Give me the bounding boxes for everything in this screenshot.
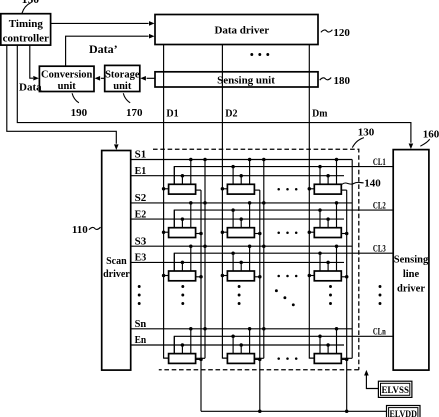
label S1 (135, 149, 147, 161)
wire S-line end vertical column m (351, 160, 353, 359)
ELVDD supply box (387, 406, 421, 417)
pixel 140 row 2 col m (309, 201, 346, 237)
svg-text:Sensing: Sensing (394, 254, 429, 265)
label E1 (135, 165, 147, 177)
sensing line CLn (174, 336, 393, 353)
svg-text:line: line (403, 269, 420, 280)
svg-text:Timing: Timing (9, 18, 44, 30)
wire ELVDD bus (201, 410, 387, 414)
svg-text:Storage: Storage (105, 70, 140, 81)
svg-text:ELVDD: ELVDD (389, 409, 417, 417)
svg-text:unit: unit (58, 81, 77, 92)
pixel 140 row 1 col m (309, 158, 346, 194)
label Data' (89, 42, 118, 56)
svg-text:120: 120 (333, 27, 350, 39)
vertical ellipsis x=182.8 (181, 285, 184, 305)
emission line E1 (131, 175, 344, 177)
vertical ellipsis x=139.2 (138, 285, 141, 305)
label 130 (352, 126, 374, 147)
ellipsis between data driver and sensing unit (250, 53, 269, 56)
label Sn (135, 318, 147, 330)
label 140 (342, 178, 381, 190)
label 180 (320, 75, 351, 87)
svg-text:Data driver: Data driver (214, 25, 269, 37)
svg-text:driver: driver (103, 269, 130, 280)
label CL1 (373, 157, 386, 168)
wire S-tap vertical column 1 (203, 158, 207, 359)
label CLn (373, 327, 386, 338)
pixel 140 row 2 col 1 (164, 201, 201, 237)
svg-text:CLn: CLn (373, 327, 386, 338)
wire ELVDD vertical column 1 (199, 190, 203, 411)
svg-text:CL3: CL3 (373, 243, 386, 254)
pixel 140 row 1 col 1 (164, 158, 201, 194)
label D2 (225, 108, 238, 120)
wire Data timing controller to conversion unit (30, 45, 39, 80)
label S3 (135, 235, 147, 247)
svg-text:controller: controller (3, 33, 49, 45)
svg-text:Dm: Dm (312, 108, 327, 120)
label 170 (123, 93, 143, 119)
vertical ellipsis x=239.1 (238, 285, 241, 305)
pixel 140 row 3 col m (309, 244, 346, 280)
label CL3 (373, 243, 386, 254)
svg-text:ELVSS: ELVSS (381, 385, 409, 395)
label Dm (312, 108, 327, 120)
timing controller block 150 (1, 14, 51, 45)
pixel 140 row n col 2 (222, 327, 263, 363)
label En (135, 334, 147, 346)
wire Data' conversion unit to data driver (66, 34, 155, 66)
wire S-tap vertical column 2 (262, 158, 266, 359)
label 150 (clipped at top) (22, 0, 40, 13)
label 160 (420, 129, 439, 147)
svg-text:unit: unit (113, 81, 132, 92)
data line Dm (308, 45, 315, 358)
svg-text:180: 180 (334, 75, 351, 87)
label S2 (135, 192, 147, 204)
svg-text:190: 190 (71, 107, 88, 119)
svg-text:E3: E3 (135, 252, 147, 264)
pixel 140 row 1 col 2 (222, 158, 259, 194)
emission line E3 (131, 261, 344, 263)
emission line En (131, 344, 344, 346)
vertical ellipsis x=380 (379, 285, 382, 305)
svg-text:130: 130 (358, 126, 375, 138)
svg-text:D1: D1 (166, 108, 178, 120)
pixel 140 row n col m (309, 327, 352, 363)
label 110 (72, 224, 101, 236)
svg-text:CL1: CL1 (373, 157, 386, 168)
diagonal ellipsis (275, 289, 295, 306)
label E3 (135, 252, 147, 264)
svg-text:CL2: CL2 (373, 200, 386, 211)
ellipsis row n (277, 357, 297, 360)
scan line S1 (131, 159, 353, 161)
ellipsis row 2 (277, 231, 297, 234)
sensing line CL2 (174, 210, 393, 228)
svg-text:S1: S1 (135, 149, 147, 161)
svg-text:En: En (135, 334, 147, 346)
wire timing controller to scan driver (7, 45, 119, 150)
wire storage unit to conversion unit (95, 76, 105, 81)
label D1 (166, 108, 178, 120)
label Data (19, 81, 42, 93)
svg-text:Sn: Sn (135, 318, 147, 330)
pixel 140 row 3 col 2 (222, 244, 259, 280)
conversion unit block 190 (39, 66, 94, 92)
label E2 (135, 208, 147, 220)
svg-text:driver: driver (397, 283, 425, 294)
data line D1 (162, 45, 169, 358)
scan line Sn (131, 328, 353, 330)
wire ELVSS to pixel unit (364, 370, 378, 389)
wire sensing unit to storage unit (140, 76, 155, 81)
svg-text:S2: S2 (135, 192, 147, 204)
sensing line driver block 160 (393, 150, 429, 371)
emission line E2 (131, 218, 344, 220)
pixel unit dashed box 130 (153, 149, 359, 369)
pixel 140 row n col 1 (164, 327, 205, 363)
svg-text:170: 170 (126, 107, 143, 119)
sensing unit block 180 (155, 72, 318, 87)
svg-text:140: 140 (364, 178, 381, 190)
scan line S3 (131, 245, 353, 247)
svg-text:Conversion: Conversion (41, 70, 92, 81)
svg-text:S3: S3 (135, 235, 147, 247)
svg-text:D2: D2 (225, 108, 238, 120)
label 190 (71, 93, 88, 119)
svg-text:Sensing unit: Sensing unit (217, 74, 275, 86)
svg-text:Data’: Data’ (89, 42, 118, 56)
svg-text:Data: Data (19, 81, 42, 93)
wire timing controller to data driver (51, 21, 155, 26)
vertical ellipsis x=330.5 (329, 285, 332, 305)
pixel 140 row 3 col 1 (164, 244, 201, 280)
storage unit block 170 (105, 65, 140, 91)
svg-text:E2: E2 (135, 208, 147, 220)
svg-text:160: 160 (423, 129, 439, 141)
scan driver block 110 (102, 151, 131, 371)
wire ELVDD vertical column 2 (258, 190, 262, 411)
data line D2 (221, 45, 228, 358)
svg-text:110: 110 (72, 224, 88, 236)
label CL2 (373, 200, 386, 211)
ellipsis row 3 (277, 275, 297, 278)
sensing line CL3 (174, 253, 393, 271)
wire timing controller to sensing line driver (17, 45, 413, 149)
ELVSS supply box (378, 381, 412, 397)
label 120 (321, 27, 351, 39)
ellipsis row 1 (277, 188, 297, 191)
svg-text:Scan: Scan (106, 256, 127, 267)
pixel 140 row 2 col 2 (222, 201, 259, 237)
scan line S2 (131, 202, 353, 204)
data driver block 120 (155, 15, 318, 45)
wire ELVDD vertical column m (345, 190, 349, 411)
svg-text:E1: E1 (135, 165, 147, 177)
sensing line CL1 (174, 167, 393, 185)
